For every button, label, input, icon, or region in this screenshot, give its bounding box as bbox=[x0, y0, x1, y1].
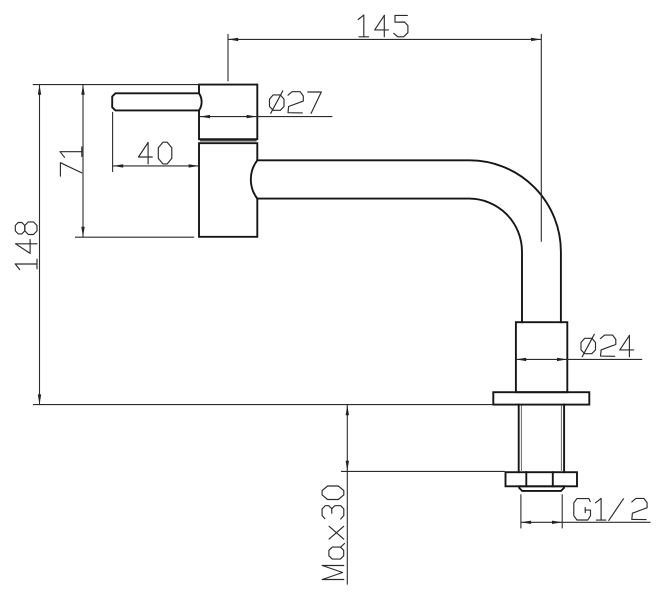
arrowhead Max30 top bbox=[346, 405, 349, 415]
extension line G1/2 left bbox=[520, 494, 522, 528]
extension line bottom of body (for 71) bbox=[75, 236, 194, 238]
reference line Max30 bottom (nut top level) bbox=[341, 470, 505, 472]
extension line 145 right (spout axis) bbox=[540, 34, 542, 242]
arrowhead o24 right bbox=[557, 358, 567, 361]
lever handle bbox=[112, 93, 201, 110]
label Max30 (vertical) bbox=[322, 579, 344, 581]
label o24 bbox=[581, 338, 596, 353]
mounting flange bbox=[493, 392, 589, 404]
spout tube end arc bbox=[251, 160, 257, 198]
dimension line 40 bbox=[113, 165, 199, 167]
arrowhead 40 left bbox=[113, 164, 123, 167]
dimension line o27 bbox=[200, 116, 333, 118]
label 71 (vertical) bbox=[60, 163, 81, 177]
label 145 bbox=[358, 15, 364, 19]
extension line 40 left bbox=[112, 112, 114, 172]
nut facet line left bbox=[525, 472, 527, 486]
label 40 bbox=[139, 143, 153, 158]
hex lock nut bbox=[506, 472, 578, 486]
extension line top of body (for 71/148) bbox=[33, 84, 199, 86]
label G1/2 bbox=[574, 499, 591, 520]
arrowhead 145 left bbox=[228, 38, 238, 41]
arrowhead o24 left bbox=[516, 358, 526, 361]
dimension line G1/2 bbox=[521, 521, 651, 523]
faucet body lower section bbox=[199, 143, 257, 237]
nut facet line right bbox=[552, 472, 554, 486]
arrowhead o27 left bbox=[200, 115, 210, 118]
dimension line 148 bbox=[39, 85, 41, 405]
mounting surface line bbox=[33, 404, 493, 406]
shank end collar bbox=[519, 486, 564, 491]
arrowhead 40 right bbox=[189, 164, 199, 167]
dimension line 71 bbox=[82, 85, 84, 237]
base column (o24 body) bbox=[516, 322, 567, 392]
extension line G1/2 right bbox=[561, 494, 563, 528]
threaded shank left edge bbox=[518, 405, 520, 473]
arrowhead 148 top bbox=[38, 85, 41, 95]
arrowhead Max30 bottom bbox=[346, 461, 349, 471]
spout tube inner edge with bend bbox=[257, 199, 522, 323]
label o27 bbox=[270, 95, 285, 110]
arrowhead 71 top bbox=[81, 85, 84, 95]
extension line 145 left bbox=[227, 34, 229, 81]
arrowhead 145 right bbox=[531, 38, 541, 41]
threaded shank right edge bbox=[563, 405, 565, 473]
arrowhead G1/2 right bbox=[552, 521, 562, 524]
arrowhead 148 bottom bbox=[38, 394, 41, 404]
cap/body joint line bbox=[200, 140, 257, 142]
dimension line Max30 bbox=[346, 405, 348, 585]
faucet body upper cap bbox=[199, 85, 257, 140]
dimension line o24 bbox=[516, 358, 642, 360]
thread root line left bbox=[520, 406, 522, 472]
thread root line right bbox=[560, 406, 562, 472]
arrowhead G1/2 left bbox=[521, 521, 531, 524]
dimension line 145 bbox=[228, 38, 541, 40]
label 148 (vertical) bbox=[15, 264, 19, 270]
arrowhead o27 right bbox=[247, 115, 257, 118]
arrowhead 71 bottom bbox=[81, 227, 84, 237]
spout tube outer edge with bend bbox=[257, 160, 561, 322]
